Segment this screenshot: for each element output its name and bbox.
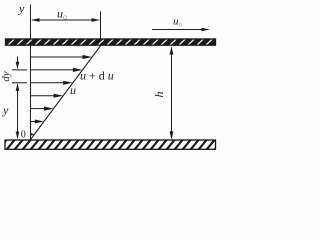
svg-text:u + d u: u + d u (80, 69, 114, 83)
velocity arrow 1 (31, 55, 92, 59)
svg-text:y: y (2, 103, 9, 117)
svg-text:y: y (18, 2, 25, 16)
dimension line u0 (top) (31, 18, 100, 22)
velocity arrow 4 (31, 94, 63, 98)
u0 arrow (moving top plate, upper right) (152, 28, 210, 32)
h dimension line (170, 46, 174, 139)
dy dimension: upper extension arrow (points down to tick) (16, 57, 20, 70)
svg-text:dy: dy (0, 71, 12, 82)
velocity arrow 2 (u + du) (31, 68, 82, 72)
top plate (hatched band) (6, 39, 216, 45)
svg-text:u: u (70, 83, 76, 97)
dy tick (upper, at u+du level) (12, 69, 27, 71)
velocity profile diagonal (31, 46, 101, 140)
velocity arrow 5 (31, 107, 54, 111)
velocity arrow 7 (shortest) (31, 133, 34, 136)
dy tick (lower, at u level) (12, 82, 27, 84)
extension line (right end of u0 dimension) (100, 12, 102, 47)
velocity arrow 6 (31, 120, 44, 124)
y axis (30, 5, 32, 141)
velocity arrow 3 (u) (31, 81, 73, 85)
y dimension line (from u level down to bottom plate) (16, 83, 20, 140)
bottom plate (hatched band) (5, 140, 216, 149)
svg-text:0: 0 (21, 130, 26, 141)
svg-text:h: h (152, 92, 166, 98)
